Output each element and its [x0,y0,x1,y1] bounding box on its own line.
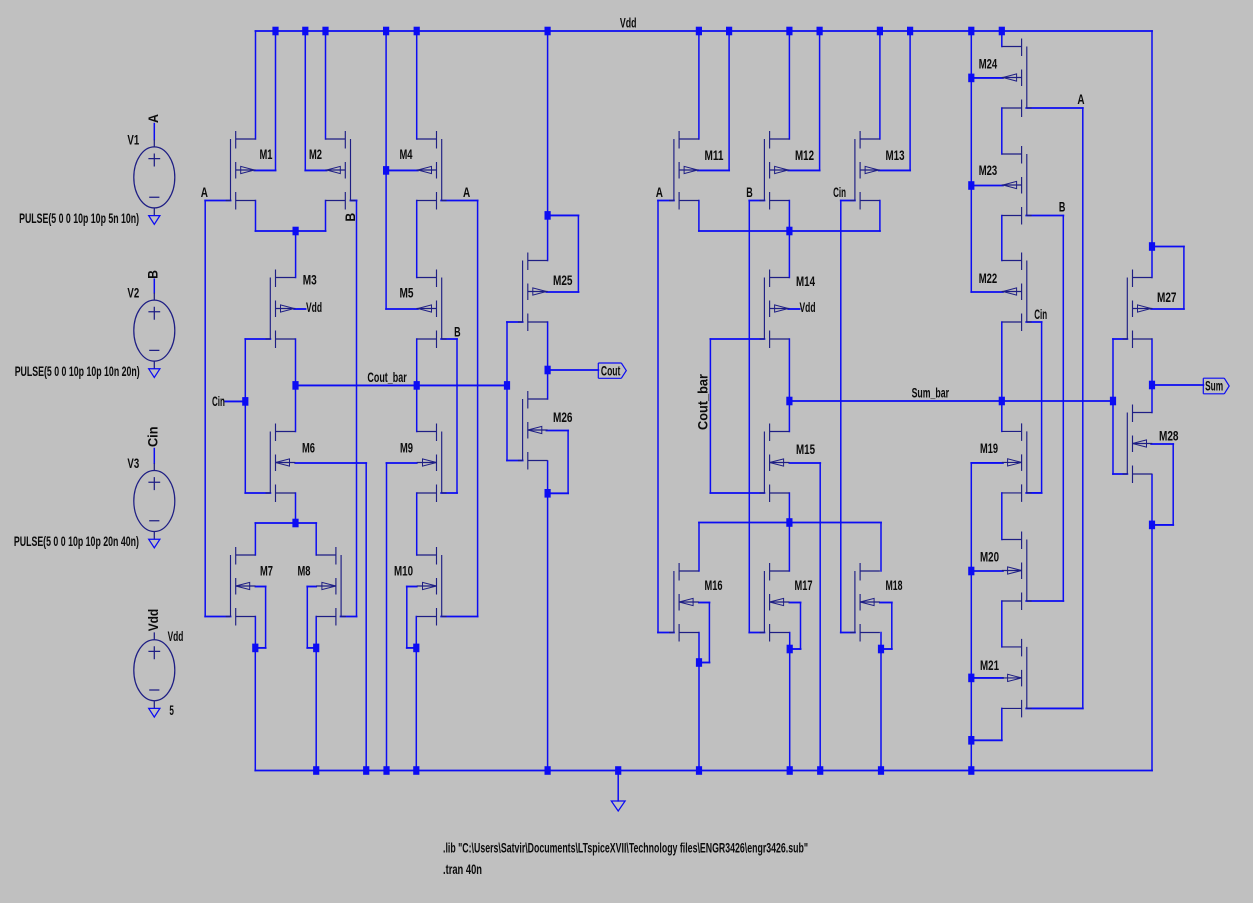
wire M25 gate chain to M26 [507,321,523,323]
junctions on Cout_bar [292,381,510,390]
wire bus to M8 drain [315,523,317,555]
svg-text:M5: M5 [400,286,414,301]
svg-text:M4: M4 [400,147,413,162]
wire net A left vertical [204,201,206,617]
svg-text:B: B [146,270,161,279]
port flag Sum [1203,378,1229,394]
wire M1 source to Vdd [254,169,275,171]
transistor M9 [400,424,447,503]
svg-text:Cin: Cin [833,185,846,200]
svg-text:M7: M7 [260,564,273,579]
wire M13 drain to Vdd [879,31,881,139]
svg-text:M21: M21 [980,658,999,673]
junction Cout node [545,366,551,375]
transistor M22 [979,253,1032,332]
svg-text:Cout_bar: Cout_bar [367,370,407,385]
svg-text:Sum: Sum [1205,378,1223,393]
junction Sum node [1149,381,1155,390]
wire M7 source join [254,617,256,648]
wire M4 source stub [386,169,418,171]
svg-text:A: A [1077,92,1084,107]
svg-text:PULSE(5 0 0 10p 10p 5n 10n): PULSE(5 0 0 10p 10p 5n 10n) [19,211,139,226]
junction NAND2 drain bus [786,227,792,236]
junction M28 source join [1149,521,1155,530]
wire Vdd to PMOS bulk column [970,31,972,292]
wire M7 bulk hook [256,586,266,588]
ground at V4 [149,708,160,717]
wire Cin label stub [225,400,245,402]
svg-text:M27: M27 [1157,290,1177,305]
svg-text:M11: M11 [705,148,724,163]
svg-text:M14: M14 [796,274,815,289]
svg-text:Cin: Cin [1034,307,1047,322]
wire M16 bulk hook [699,602,710,604]
transistor M15 [760,424,816,503]
svg-text:M15: M15 [796,442,815,457]
wire Sum node to flag [1152,384,1203,386]
wire net A to M11 gate [658,200,674,202]
svg-text:A: A [146,114,161,123]
wire net Cin to M3/M6 gates [245,338,270,340]
svg-text:M18: M18 [886,578,903,593]
svg-text:M9: M9 [400,441,413,456]
junctions on Sum_bar [786,397,1116,406]
wire Vdd rail left drop to M1 drain [255,31,257,139]
wire M24 source stub [971,77,1003,79]
wire Vdd to M4/M5 sources [385,31,387,309]
wire M1 drain bus [255,201,257,232]
wire net B right-half vertical [748,201,750,633]
transistor M6 [266,424,316,503]
transistor M1 [226,131,273,210]
svg-text:V1: V1 [127,132,139,147]
svg-text:V2: V2 [127,285,139,300]
svg-text:A: A [463,185,470,200]
junctions M16/M17/M18 source joins [696,645,884,667]
wire M17 bulk hook [789,602,800,604]
transistor M19 [980,423,1032,502]
wire M26 source join [547,461,549,493]
junction M25 Vdd tap [545,211,551,220]
svg-text:Cout_bar: Cout_bar [696,373,711,430]
wire M22 drain to Sum_bar to M19 [1001,322,1003,431]
wire M18 bulk hook [880,602,892,604]
transistor M7 [226,547,273,626]
svg-text:M13: M13 [886,148,905,163]
wire net B to M5/M9 gates [441,338,457,340]
wire Vdd drop to M25 [547,31,549,261]
wire M12 drain to Vdd [788,31,790,139]
wire M28 bulk hook [1151,443,1173,445]
wire Sum_bar to M27/M28 gates [1113,338,1127,340]
transistor M11 [669,131,724,210]
svg-text:.lib "C:\Users\Satvir\Document: .lib "C:\Users\Satvir\Documents\LTspiceX… [443,841,808,856]
node Sum_bar bus [789,400,1113,402]
wire M25 source loop [548,214,579,216]
svg-text:M12: M12 [795,148,814,163]
wire M23 source stub [971,185,1003,187]
wire M10 bulk hook [407,586,417,588]
transistor M16 [669,563,723,642]
svg-text:A: A [656,185,663,200]
wire M5 drain to Cout_bar to M9 [416,339,418,432]
transistor M23 [979,146,1032,225]
svg-text:Vdd: Vdd [800,300,816,315]
wire M17 source join [789,633,791,650]
wire net Cin from M22 gate [1026,321,1041,323]
wire M4 drain to Vdd [416,31,418,139]
wire NMOS bulk column right [971,462,1003,464]
wire net B to M12/M17 gates [749,200,764,202]
wire net A from M4 gate [441,200,477,202]
junctions PMOS bulk column [968,74,974,190]
svg-text:Sum_bar: Sum_bar [912,386,950,401]
svg-text:Cin: Cin [145,427,160,448]
wire M9 bulk to ground [387,462,417,464]
svg-text:V3: V3 [127,456,139,471]
wire M3 drain to Cout_bar [295,339,297,432]
wire right NMOS drain bus [699,522,881,524]
svg-text:M23: M23 [979,163,998,178]
wire M27 source loop [1152,246,1184,248]
svg-text:A: A [201,185,208,200]
wire M12 source to Vdd [788,169,819,171]
svg-text:B: B [454,325,461,340]
svg-text:Vdd: Vdd [620,15,637,30]
svg-text:.tran 40n: .tran 40n [443,862,482,877]
junctions on ground rail [313,766,974,775]
wire net Cin vertical [244,339,246,493]
wire M7 source to ground rail [254,648,256,771]
transistor M2 [309,131,355,210]
wire net A right-half vertical [657,201,659,633]
wire NAND2 output down to M14 [788,231,790,278]
junction M27 Vdd tap [1149,242,1155,251]
svg-text:M6: M6 [302,441,315,456]
ground rail [255,770,1152,772]
svg-text:M3: M3 [303,273,317,288]
voltage source V3 [134,463,175,539]
wire M6 source bus [295,493,297,523]
svg-text:M24: M24 [979,56,998,71]
transistor M14 [760,270,816,349]
svg-text:PULSE(5 0 0 10p 10p 10n 20n): PULSE(5 0 0 10p 10p 10n 20n) [15,364,140,379]
wire NMOS stack chain M19-M20 [1001,493,1003,540]
junction M4 source [383,166,389,175]
svg-text:M28: M28 [1159,429,1179,444]
svg-text:M19: M19 [980,441,998,456]
svg-text:M16: M16 [705,578,723,593]
transistor M28 [1123,405,1179,484]
wire M21 source join [1001,708,1003,740]
wire M20 bulk stub [971,570,1003,572]
svg-text:Vdd: Vdd [306,300,322,315]
wire bus to M16 drain [698,523,700,572]
svg-text:M1: M1 [260,147,273,162]
Vdd rail right drop to M27 [1151,31,1153,278]
wire bus to M7 drain [254,523,256,555]
svg-text:B: B [343,213,358,222]
wire PMOS stack chain M24-M23 [1001,108,1003,154]
wire M16 source to ground rail [698,663,700,771]
transistor M20 [980,532,1032,611]
wire V1 top lead [153,124,155,140]
ground at V3 [149,539,160,548]
transistor M13 [850,131,905,210]
wire M7/M8 drain bus [255,522,316,524]
wire M2 source to Vdd [305,169,326,171]
wire M6 bulk to ground [295,462,366,464]
wire M10 source to ground [415,617,417,771]
transistor M26 [518,391,573,470]
wire NAND1 output down to M3 [295,231,297,278]
wire M11 drain to Vdd [698,31,700,139]
wire M16 source join [698,633,700,663]
wire net B from M23 gate [1026,215,1063,217]
svg-text:B: B [1059,199,1066,214]
svg-text:M17: M17 [795,578,813,593]
wire M14 drain to Sum_bar to M15 [788,339,790,432]
voltage source V1 [134,140,175,216]
svg-text:5: 5 [169,703,174,718]
wire M26 bulk hook [547,430,569,432]
transistor M27 [1123,270,1177,349]
wire M28 source to ground rail [1151,525,1153,771]
wire M8 bulk hook [307,586,316,588]
Vdd rail [256,30,1153,32]
wire M18 source to ground rail [880,649,882,771]
wire net B from M2 gate [351,200,357,202]
svg-text:Cin: Cin [212,394,225,409]
wire M15 bulk to ground [789,462,820,464]
transistor M10 [394,547,447,626]
svg-text:B: B [746,185,753,200]
wire M21 bulk stub [971,677,1003,679]
wire M13 source to Vdd [879,169,910,171]
wire Cout_bar gate chain M14/M15 [710,338,764,340]
transistor M8 [298,547,346,626]
wire M2 drain to Vdd [325,31,327,139]
wire net Cin right-half vertical [840,201,842,633]
voltage source V2 [134,293,175,369]
wire PMOS stack chain M23-M22 [1001,216,1003,261]
svg-text:Cout: Cout [601,364,621,379]
wire M26 source to ground rail [547,493,549,770]
ground symbol at bottom rail [611,801,625,811]
wire M25 drain to Cout node to M26 [547,322,549,399]
transistor M17 [760,563,813,642]
transistor M3 [266,270,318,349]
port flag Cout [598,363,626,379]
junctions on Vdd rail [272,27,1005,36]
svg-text:M10: M10 [394,564,413,579]
junction Cin left tap [242,397,248,406]
wire M18 source join [880,633,882,650]
junction M6 source bus [292,519,298,528]
transistor M12 [760,131,815,210]
voltage source V4 Vdd [134,632,175,708]
junction right NMOS drain bus [786,518,792,527]
svg-text:M2: M2 [309,147,322,162]
wire M28 source join [1151,475,1153,525]
wire M11 source to Vdd [698,169,729,171]
ground at V1 [149,216,160,225]
wire M27 drain to Sum node to M28 [1151,339,1153,413]
svg-text:Vdd: Vdd [146,609,161,632]
wire M24 drain to Vdd [1001,31,1003,47]
node A input wire to M1 gate [205,200,230,202]
svg-text:PULSE(5 0 0 10p 10p 20n 40n): PULSE(5 0 0 10p 10p 20n 40n) [14,534,139,549]
wire M17 source to ground rail [789,649,791,771]
node Cout_bar bus [296,384,508,386]
wire M3 Vdd label stub [294,308,305,310]
wire NMOS stack chain M20-M21 [1001,601,1003,647]
wire M14 Vdd label stub [788,308,799,310]
svg-text:M20: M20 [980,550,999,565]
wire M9 source to M10 drain [416,493,418,555]
wire bus to M17 drain [788,523,790,572]
svg-text:M25: M25 [553,273,573,288]
wire M11 drain bus right [698,201,700,232]
junctions NMOS bulk column [968,567,974,745]
wire V3 top lead [153,449,155,464]
transistor M24 [979,39,1032,118]
transistor M18 [850,563,903,642]
wire Cout node to flag [548,369,599,371]
svg-text:M22: M22 [979,271,998,286]
transistor M4 [400,131,447,210]
wire M12 drain into bus [788,201,790,232]
svg-text:M8: M8 [298,564,311,579]
transistor M25 [518,253,573,332]
wire bus to M18 drain [880,523,882,572]
junction M26 source join [545,489,551,498]
transistor M5 [400,270,447,349]
ground at V2 [149,369,160,378]
wire ground flag stub [617,771,619,801]
wire M15 source to NMOS bus [788,493,790,523]
transistor M21 [980,639,1032,718]
wire net A from M24 gate [1026,107,1083,109]
wire M4 drain to M5 [416,201,418,278]
svg-text:Vdd: Vdd [168,629,184,644]
svg-text:M26: M26 [553,410,573,425]
junction NAND1 drain bus [293,227,299,236]
wire V2 top lead [153,279,155,293]
wire net Cin to M13/M18 gates [841,200,855,202]
wire M8 source to ground [315,617,317,771]
junctions NMOS source joins left [252,644,419,653]
